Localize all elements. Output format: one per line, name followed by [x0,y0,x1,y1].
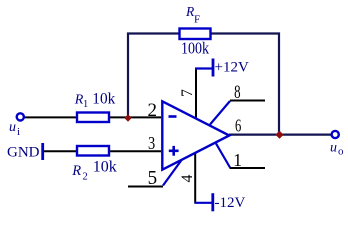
svg-text:10k: 10k [93,159,117,176]
svg-text:GND: GND [7,145,40,161]
svg-text:6: 6 [235,117,242,137]
svg-text:5: 5 [148,168,157,190]
svg-text:-12V: -12V [215,195,246,211]
svg-text:u: u [9,120,16,135]
svg-text:R: R [71,163,81,179]
svg-text:u: u [330,141,337,156]
svg-text:7: 7 [179,89,196,97]
svg-text:10k: 10k [92,91,115,108]
svg-text:3: 3 [148,132,155,153]
svg-text:4: 4 [179,174,196,182]
svg-text:2: 2 [148,100,158,121]
svg-text:i: i [17,126,20,138]
svg-text:8: 8 [234,82,240,103]
svg-text:1: 1 [83,99,88,110]
svg-text:+12V: +12V [215,60,249,76]
svg-text:o: o [338,146,344,158]
svg-text:1: 1 [233,150,242,170]
svg-text:100k: 100k [181,39,210,58]
svg-text:F: F [194,14,200,26]
svg-text:2: 2 [83,172,88,183]
